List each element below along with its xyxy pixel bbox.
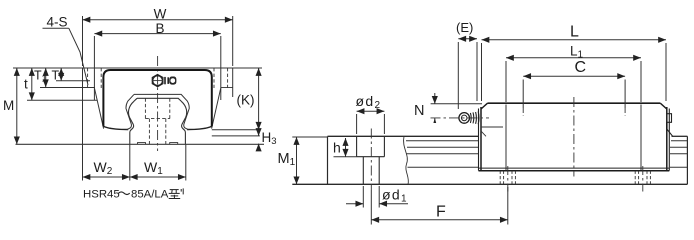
block centerline (573, 97, 575, 177)
block bottom double line (479, 167, 670, 169)
label 4-S with leader (43, 27, 69, 29)
svg-text:F: F (436, 204, 446, 221)
seal bottom reference (right, for H3) (212, 135, 260, 137)
dimension F (507, 187, 509, 225)
dimension h (334, 156, 357, 158)
wing undersides (40, 87, 95, 89)
skirt taper diagonals (95, 88, 104, 128)
svg-text:HSR45: HSR45 (83, 189, 120, 201)
svg-text:W1: W1 (144, 159, 163, 177)
rail section left edge (327, 136, 329, 184)
svg-text:L: L (570, 24, 579, 41)
svg-text:N: N (414, 103, 424, 119)
rail bolt hole hidden lines (d1) (148, 119, 150, 144)
centerline (vertical axis of left view) (157, 56, 159, 151)
dimension W (82, 16, 84, 66)
LM block body wing top/sides (thin) (82, 68, 84, 88)
dimensions W2 / W1 (82, 88, 84, 181)
grease port (right end) (667, 114, 672, 123)
dimension T1 (45, 68, 47, 87)
grease nipple (side view, left end) (459, 113, 470, 124)
svg-text:C: C (575, 59, 587, 76)
dimension (K) (258, 68, 260, 130)
svg-text:M: M (3, 98, 14, 113)
LM block (side view) (488, 102, 661, 104)
svg-text:(E): (E) (456, 20, 473, 35)
end plate bottom-left arc (103, 126, 128, 129)
top reference line (block top extended) (13, 67, 262, 69)
dimension B (93, 36, 95, 100)
rail bolt hole hidden lines (counterbore d2) (144, 98, 146, 118)
tapped hole 4-S dashed lines (right wing) (213, 68, 215, 88)
rail break line (404, 136, 409, 184)
nipple boss line (left end plate) (481, 126, 503, 128)
svg-text:t: t (24, 77, 28, 92)
svg-text:T: T (52, 69, 60, 83)
hole centerline (370, 129, 372, 191)
end seal outer faces (478, 109, 480, 171)
svg-text:4-S: 4-S (47, 15, 68, 30)
rail bolt holes under block (hidden) (500, 171, 650, 185)
rail right end face (686, 136, 688, 184)
end plate bottom-right arc (187, 126, 212, 129)
svg-text:h: h (333, 140, 341, 156)
dimension T (60, 68, 62, 81)
svg-text:(K): (K) (237, 93, 255, 108)
svg-text:T1: T1 (34, 69, 47, 84)
dimension (E) (457, 42, 459, 109)
datum / rail bottom line (16, 143, 265, 145)
svg-text:H3: H3 (262, 130, 277, 147)
rail side groove lines (right of block) (671, 140, 687, 142)
svg-text:B: B (155, 21, 164, 36)
svg-text:L1: L1 (570, 44, 584, 61)
rail bottom / datum line (292, 183, 687, 185)
rail cross-section profile (137, 98, 187, 144)
dimension M (16, 68, 18, 144)
svg-text:M1: M1 (278, 151, 296, 168)
svg-text:85A/LA: 85A/LA (131, 189, 169, 201)
rail side groove lines (left of block) (406, 140, 479, 142)
dimension phi-d2 (356, 114, 358, 134)
svg-text:ød1: ød1 (382, 187, 408, 205)
end plate / body boundaries (505, 105, 507, 171)
rail counterbore (section) (356, 136, 358, 156)
svg-text:W: W (154, 7, 167, 22)
dimension H3 (258, 131, 260, 136)
dimension M1 (292, 136, 327, 138)
svg-text:W2: W2 (94, 159, 113, 177)
dimension L (481, 43, 483, 101)
svg-text:ød2: ød2 (356, 93, 382, 111)
block bottom reference (right, for K) (212, 129, 261, 131)
rail top line (328, 135, 479, 137)
end plate outline (thick) (103, 70, 211, 126)
block mounting hole marks (C) (522, 108, 524, 116)
hand-drawn CJK glyph: katakana-like 型 (caption suffix) (169, 188, 184, 198)
nipple axis (431, 117, 490, 119)
dimension t (31, 68, 33, 100)
grease nipple (front view) (152, 75, 163, 87)
rail bottom relief bumps (138, 143, 146, 145)
dimension C (522, 80, 524, 109)
dimension N (431, 103, 482, 105)
dimension phi-d1 (362, 186, 364, 208)
dimension L1 (505, 61, 507, 102)
tapped hole 4-S dashed lines (left wing) (87, 68, 89, 88)
block inner bore profile (134, 94, 189, 129)
